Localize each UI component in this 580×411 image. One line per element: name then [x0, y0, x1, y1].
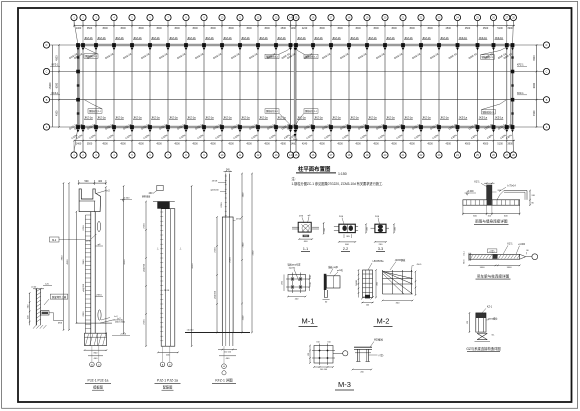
svg-text:4500: 4500 — [446, 27, 452, 30]
embed left dims — [29, 293, 31, 325]
M-1 side dim — [323, 299, 330, 301]
top dimension line — [74, 25, 515, 27]
column detail PJZ-1 formwork : top dimension — [79, 182, 106, 184]
expansion joint bottom marker — [294, 129, 296, 139]
R1 step flashing above right part — [504, 190, 527, 192]
svg-text:4500: 4500 — [483, 27, 489, 30]
svg-text:4500: 4500 — [465, 27, 471, 30]
svg-text:4500: 4500 — [391, 142, 397, 145]
svg-text:4500: 4500 — [210, 27, 216, 30]
svg-text:4500: 4500 — [228, 27, 234, 30]
M-1 anchor plan — [288, 275, 306, 292]
svg-text:JKZ-1a: JKZ-1a — [440, 116, 449, 120]
svg-text:4500: 4500 — [56, 110, 59, 116]
svg-text:JKZ-1b: JKZ-1b — [404, 36, 413, 40]
svg-text:4500: 4500 — [246, 142, 252, 145]
svg-text:吊车梁与柱连接详图: 吊车梁与柱连接详图 — [477, 273, 510, 278]
svg-text:JKZ-1b: JKZ-1b — [314, 36, 323, 40]
R1 beam band — [463, 200, 520, 205]
svg-text:4500: 4500 — [409, 142, 415, 145]
svg-text:JKZ-1a: JKZ-1a — [205, 116, 214, 120]
svg-text:JKZ-1a: JKZ-1a — [368, 116, 377, 120]
svg-text:5100: 5100 — [497, 27, 503, 30]
svg-text:JKZ-1a: JKZ-1a — [404, 116, 413, 120]
grid bubbles bottom row — [71, 152, 517, 158]
svg-text:JKZ-1b: JKZ-1b — [97, 36, 106, 40]
svg-text:JKZ-1b: JKZ-1b — [241, 36, 250, 40]
svg-text:3500: 3500 — [87, 142, 93, 145]
KFZ-1 axis bubble — [222, 364, 227, 369]
svg-text:4500: 4500 — [427, 142, 433, 145]
section 1-1 — [298, 222, 311, 232]
svg-text:3940: 3940 — [83, 259, 85, 265]
svg-text:4500: 4500 — [319, 142, 325, 145]
svg-text:JKZ-1b: JKZ-1b — [223, 36, 232, 40]
bolt slot lower — [98, 310, 101, 320]
svg-text:(Q235): (Q235) — [289, 267, 296, 269]
M-2 strip left dim — [358, 270, 360, 298]
svg-text:2-2: 2-2 — [343, 247, 348, 251]
boxed labels reinforced concrete column — [84, 54, 98, 58]
leader b-2 at base — [100, 320, 114, 323]
svg-text:JKZ-1a: JKZ-1a — [479, 116, 488, 120]
svg-text:4500: 4500 — [192, 142, 198, 145]
svg-text:M-2: M-2 — [377, 317, 390, 326]
svg-text:±0.000: ±0.000 — [187, 330, 194, 332]
KFZ-1 ground line — [185, 332, 250, 334]
svg-text:4500: 4500 — [391, 27, 397, 30]
R2 right taper — [520, 254, 526, 256]
rebar stirrup ticks — [160, 212, 163, 341]
right vertical dimension line — [536, 45, 538, 127]
svg-text:4500: 4500 — [337, 142, 343, 145]
svg-text:JKZ-1b: JKZ-1b — [368, 36, 377, 40]
svg-text:4500: 4500 — [228, 142, 234, 145]
svg-text:1460: 1460 — [76, 142, 82, 145]
svg-text:C: C — [46, 71, 48, 74]
svg-text:JKZ-1b: JKZ-1b — [259, 36, 268, 40]
svg-text:KFZ-1: KFZ-1 — [52, 64, 59, 67]
left wall — [77, 45, 79, 127]
svg-text:JKZ-1b: JKZ-1b — [277, 36, 286, 40]
svg-text:JKZ-1a: JKZ-1a — [133, 116, 142, 120]
embed ground hatch — [33, 325, 36, 329]
svg-text:2Φ18: 2Φ18 — [229, 257, 232, 263]
svg-text:5@80: 5@80 — [356, 279, 358, 285]
svg-text:JKZ-1a: JKZ-1a — [187, 116, 196, 120]
svg-text:110 110: 110 110 — [224, 352, 232, 354]
svg-text:100: 100 — [310, 282, 312, 285]
svg-text:1400: 1400 — [480, 267, 486, 269]
svg-text:2Φ18: 2Φ18 — [82, 225, 85, 231]
svg-text:JKZ-1b: JKZ-1b — [133, 36, 142, 40]
M-2 strip bottom dim — [362, 302, 374, 304]
R1 right dim column — [529, 191, 531, 206]
svg-text:5100: 5100 — [497, 142, 503, 145]
svg-text:2Φ18: 2Φ18 — [212, 180, 218, 183]
svg-text:JKZ-1b: JKZ-1b — [84, 36, 93, 40]
svg-text:4500: 4500 — [373, 142, 379, 145]
svg-text:JKZ-1b: JKZ-1b — [187, 36, 196, 40]
detail PJZ-1 rebar : dark cap — [157, 202, 169, 209]
svg-text:JKZ-1b: JKZ-1b — [205, 36, 214, 40]
M-1 plan corner crosses — [291, 286, 294, 289]
detail KFZ-1 : main shaft — [222, 217, 233, 333]
section 2-2 — [339, 224, 355, 232]
svg-text:JKZ-1a: JKZ-1a — [495, 116, 504, 120]
embed plate — [41, 311, 49, 315]
svg-text:C: C — [546, 71, 548, 74]
svg-text:⊥: ⊥ — [157, 247, 160, 251]
svg-text:3500: 3500 — [87, 27, 93, 30]
svg-text:1400: 1400 — [507, 267, 513, 269]
svg-text:JKZ-1a: JKZ-1a — [115, 116, 124, 120]
svg-text:100 100: 100 100 — [320, 369, 328, 371]
svg-text:4500: 4500 — [156, 27, 162, 30]
svg-text:4500: 4500 — [174, 27, 180, 30]
svg-text:柱平面布置图: 柱平面布置图 — [298, 165, 331, 173]
svg-text:1460: 1460 — [76, 27, 82, 30]
row C grid line — [50, 71, 543, 73]
far right dim line of PJZ-1 — [123, 186, 125, 333]
svg-text:4500: 4500 — [355, 142, 361, 145]
row A grid line — [50, 126, 543, 128]
left wall intermediate columns — [76, 70, 80, 74]
far-left dim lines of PJZ-1 — [63, 183, 65, 330]
svg-text:4500: 4500 — [67, 259, 69, 265]
svg-text:JKZ-1a: JKZ-1a — [386, 116, 395, 120]
leader b-2 — [96, 191, 106, 194]
svg-text:KFZ-1: KFZ-1 — [517, 64, 524, 67]
svg-text:JKZ-1a: JKZ-1a — [422, 116, 431, 120]
svg-text:M-3: M-3 — [338, 380, 351, 389]
svg-text:(500×400): (500×400) — [115, 321, 125, 324]
M-1 plan dims — [288, 296, 306, 298]
embed detail wall with hatch — [35, 289, 37, 326]
svg-text:4500: 4500 — [174, 142, 180, 145]
svg-text:1-1: 1-1 — [303, 247, 308, 251]
svg-text:JKZ-1b: JKZ-1b — [350, 36, 359, 40]
R2 mid joint block — [493, 255, 498, 259]
row bubbles left (A-D) — [43, 42, 49, 48]
shaft stirrup ticks — [85, 215, 90, 328]
svg-text:4240: 4240 — [302, 27, 308, 30]
svg-text:KZ-1: KZ-1 — [487, 306, 493, 309]
svg-text:注:: 注: — [292, 176, 296, 181]
KFZ-1 right dim lines — [241, 174, 243, 333]
left dim line of PJZ-1 — [84, 215, 86, 333]
svg-text:4500: 4500 — [533, 55, 536, 61]
svg-text:±0.00: ±0.00 — [31, 287, 37, 289]
svg-text:模板图: 模板图 — [93, 385, 103, 390]
svg-text:2860: 2860 — [83, 311, 85, 317]
svg-text:4500: 4500 — [124, 259, 126, 265]
section 3-3 — [375, 224, 386, 232]
R2 bottom dim — [469, 264, 520, 266]
svg-text:JKZ-1a: JKZ-1a — [241, 116, 250, 120]
svg-text:JKZ-1a: JKZ-1a — [314, 116, 323, 120]
svg-text:JKZ-1b: JKZ-1b — [422, 36, 431, 40]
M-3 leader circle — [333, 352, 343, 354]
M-2 bottom dim — [383, 300, 413, 302]
svg-text:4500: 4500 — [102, 142, 108, 145]
svg-text:KFZ-1: KFZ-1 — [517, 92, 524, 95]
svg-text:JKZ-1b: JKZ-1b — [479, 36, 488, 40]
bottom dimension line — [74, 140, 515, 142]
svg-text:1:150: 1:150 — [338, 172, 347, 176]
svg-text:500: 500 — [85, 180, 90, 183]
footing hatch — [86, 334, 89, 345]
M-2 ladder strip — [363, 270, 373, 298]
PJZ-1 base axis bubbles — [90, 362, 95, 367]
M-3 side bottom dim — [353, 369, 372, 371]
svg-text:+4.000: +4.000 — [518, 244, 526, 246]
column detail PJZ-1 : shaft — [90, 212, 92, 334]
top wall — [78, 44, 513, 47]
svg-text:KZ-1: KZ-1 — [507, 243, 513, 246]
svg-text:2Φ18: 2Φ18 — [236, 218, 242, 221]
svg-text:4500: 4500 — [427, 27, 433, 30]
KFZ-1 left dim of main shaft — [216, 217, 218, 333]
expansion joint top marker — [294, 48, 297, 51]
R2 left end plates — [468, 253, 470, 261]
svg-text:4500: 4500 — [210, 142, 216, 145]
svg-text:JKZ-1a: JKZ-1a — [151, 116, 160, 120]
PJZ-1 footing — [85, 333, 107, 345]
svg-text:JKZ-1b: JKZ-1b — [440, 36, 449, 40]
M-1 side channel — [324, 274, 327, 290]
svg-text:φ6@200: φ6@200 — [210, 190, 219, 192]
svg-text:M-2: M-2 — [52, 239, 57, 242]
column detail PJZ-1 : U-shaped top corbel — [79, 189, 100, 212]
row D grid line — [50, 44, 543, 46]
footing bottom dims — [85, 349, 107, 351]
svg-text:D: D — [546, 44, 548, 47]
bottom slanted tags below wall — [71, 133, 513, 140]
svg-text:b 75×14: b 75×14 — [507, 184, 516, 187]
svg-text:4500: 4500 — [120, 142, 126, 145]
svg-text:4500: 4500 — [264, 142, 270, 145]
2-2 bottom dim — [339, 241, 355, 243]
svg-text:JKZ-1b: JKZ-1b — [151, 36, 160, 40]
svg-text:JKZ-1b: JKZ-1b — [386, 36, 395, 40]
svg-text:JKZ-1b: JKZ-1b — [495, 36, 504, 40]
left dim line of rebar detail — [145, 202, 147, 347]
svg-text:400: 400 — [98, 180, 103, 183]
right wall — [512, 45, 514, 127]
detail PJZ-1 rebar : top flag — [157, 185, 163, 190]
1-1 inner dim — [303, 235, 310, 237]
svg-text:4500: 4500 — [533, 110, 536, 116]
svg-text:Φ6.5: Φ6.5 — [417, 263, 423, 266]
embed top dims — [33, 288, 44, 290]
svg-text:2Φ18: 2Φ18 — [164, 289, 170, 292]
svg-text:100: 100 — [310, 275, 312, 278]
R2 beam — [469, 254, 520, 259]
embed leader to XX — [49, 312, 54, 314]
svg-text:KFZ-1: KFZ-1 — [52, 92, 59, 95]
M-1 side bottom leg — [323, 290, 325, 298]
svg-text:15000: 15000 — [49, 82, 52, 89]
svg-text:⊥: ⊥ — [179, 247, 182, 251]
R3 member — [476, 313, 486, 318]
R1 center vertical member — [487, 185, 492, 206]
svg-text:4500: 4500 — [120, 27, 126, 30]
svg-text:φ8@150: φ8@150 — [83, 283, 85, 292]
svg-text:φ8@200: φ8@200 — [144, 263, 146, 272]
svg-text:4500: 4500 — [483, 142, 489, 145]
svg-text:4240: 4240 — [302, 142, 308, 145]
svg-text:KZ-1: KZ-1 — [474, 181, 480, 184]
svg-text:雨篷与墙身连接详图: 雨篷与墙身连接详图 — [475, 219, 508, 224]
3-3 right dim — [393, 224, 395, 232]
svg-text:JKZ-1a: JKZ-1a — [223, 116, 232, 120]
M-2 reference box — [50, 237, 60, 242]
vertical grid lines through building — [74, 21, 513, 152]
svg-text:4500: 4500 — [246, 27, 252, 30]
top bay labels JKZ-1b — [84, 36, 504, 40]
svg-text:PJZ-1 PJZ-1a: PJZ-1 PJZ-1a — [157, 379, 178, 383]
svg-text:4500: 4500 — [281, 27, 287, 30]
expansion joint wall at axis 14 — [294, 45, 296, 127]
right dim line of rebar detail — [191, 186, 193, 346]
bottom bay labels JKZ-1 — [84, 116, 504, 120]
svg-text:4500: 4500 — [138, 142, 144, 145]
bolt slot upper — [97, 221, 100, 231]
svg-text:2Φ16: 2Φ16 — [220, 202, 223, 208]
row bubbles right (A-D) — [543, 42, 549, 48]
svg-text:4500: 4500 — [192, 27, 198, 30]
svg-text:D: D — [46, 44, 48, 47]
svg-text:钢梁埋件上移: 钢梁埋件上移 — [52, 295, 67, 299]
svg-text:2Φ18: 2Φ18 — [143, 223, 146, 229]
R3 bowtie base — [477, 333, 487, 339]
M-2 strip base block — [365, 295, 370, 299]
svg-text:1.钢柱分图ZC-1 参见图集07G220, ZCM3-10: 1.钢柱分图ZC-1 参见图集07G220, ZCM3-10d 有关要求进行施工… — [292, 181, 384, 186]
M-3 plan — [314, 346, 333, 364]
M-2 strip right dim — [375, 270, 377, 298]
leaders from boxed labels to joint columns — [279, 51, 287, 55]
svg-text:4500: 4500 — [319, 27, 325, 30]
svg-text:1460: 1460 — [291, 142, 297, 145]
detail KFZ-1 : upper thin shaft — [225, 174, 227, 218]
svg-text:JKZ-1a: JKZ-1a — [84, 116, 93, 120]
svg-text:JKZ-1b: JKZ-1b — [459, 36, 468, 40]
R2 end circle — [532, 254, 538, 260]
bottom wall — [78, 126, 513, 129]
2-2 right dim — [365, 224, 367, 232]
svg-text:PJZ-1 PJZ-1a: PJZ-1 PJZ-1a — [88, 379, 109, 383]
corbel edge projected line — [75, 212, 77, 324]
svg-text:JKZ-1a: JKZ-1a — [459, 116, 468, 120]
1-1 bottom dim — [299, 238, 312, 240]
right wall intermediate columns — [511, 70, 515, 74]
rebar detail base dims — [158, 351, 178, 353]
svg-text:L50X5X5a: L50X5X5a — [373, 261, 384, 263]
ground line at PJZ-1 base — [76, 322, 112, 324]
svg-text:GZ与系梁连接构造详图: GZ与系梁连接构造详图 — [466, 346, 501, 351]
svg-text:JKZ-1a: JKZ-1a — [259, 116, 268, 120]
1-1 right dim — [323, 223, 325, 234]
svg-text:JKZ-1a: JKZ-1a — [169, 116, 178, 120]
svg-text:4500: 4500 — [264, 27, 270, 30]
svg-text:2Φ16: 2Φ16 — [143, 319, 146, 325]
svg-text:KFZ-1 详图: KFZ-1 详图 — [215, 378, 233, 383]
svg-text:JKZ-1b: JKZ-1b — [115, 36, 124, 40]
svg-text:4500: 4500 — [355, 27, 361, 30]
R1 bottom dim — [463, 213, 520, 215]
KFZ-1 bottom dims — [218, 349, 237, 351]
M-2 right dim — [415, 272, 417, 296]
svg-text:JKZ-1b: JKZ-1b — [332, 36, 341, 40]
svg-text:JKZ-1b: JKZ-1b — [297, 36, 306, 40]
svg-text:3900: 3900 — [507, 27, 513, 30]
top wall columns — [76, 43, 514, 50]
svg-text:4500: 4500 — [156, 142, 162, 145]
detail PJZ-1 rebar : column body — [161, 209, 175, 347]
mid annotation phi8 — [96, 245, 103, 247]
left vertical dimension line — [58, 45, 60, 127]
bottom slanted column tags above wall — [68, 122, 513, 131]
M-2 brace frame — [382, 270, 384, 294]
left overall dimension — [52, 45, 54, 127]
svg-text:6000: 6000 — [533, 82, 536, 88]
svg-text:4500: 4500 — [446, 142, 452, 145]
svg-text:4500: 4500 — [373, 27, 379, 30]
top slanted column tags below wall — [68, 51, 513, 60]
svg-text:4500: 4500 — [192, 263, 194, 269]
svg-text:1460: 1460 — [291, 27, 297, 30]
svg-text:6000: 6000 — [56, 82, 59, 88]
svg-text:φ8@150: φ8@150 — [215, 290, 217, 299]
svg-text:2Φ18: 2Φ18 — [214, 247, 217, 253]
svg-text:4500: 4500 — [102, 27, 108, 30]
svg-text:4500: 4500 — [281, 142, 287, 145]
svg-text:4500: 4500 — [337, 27, 343, 30]
3-3 bottom dim — [375, 241, 386, 243]
right dim line of PJZ-1 — [105, 187, 107, 333]
svg-text:JKZ-1b: JKZ-1b — [169, 36, 178, 40]
svg-text:3900: 3900 — [507, 142, 513, 145]
boxed label 钢梁埋件上移 — [50, 294, 68, 299]
svg-text:4500: 4500 — [409, 27, 415, 30]
svg-text:JKZ-1a: JKZ-1a — [97, 116, 106, 120]
svg-text:4500: 4500 — [56, 55, 59, 61]
svg-text:JKZ-1a: JKZ-1a — [350, 116, 359, 120]
KFZ-1 below-ground shaft — [221, 333, 223, 347]
grid bubbles top row — [71, 14, 517, 20]
svg-text:4500: 4500 — [465, 142, 471, 145]
svg-text:配筋图: 配筋图 — [163, 385, 173, 390]
svg-text:M-1: M-1 — [302, 317, 315, 326]
svg-text:-2.000: -2.000 — [120, 333, 127, 335]
svg-text:3-3: 3-3 — [378, 247, 383, 251]
svg-text:2Φ16: 2Φ16 — [96, 293, 102, 296]
svg-text:7850: 7850 — [61, 255, 63, 261]
bottom wall columns — [76, 125, 514, 132]
svg-text:JKZ-1a: JKZ-1a — [332, 116, 341, 120]
row B grid line — [50, 99, 543, 101]
R3 left dim — [468, 313, 470, 332]
M-3 side view — [354, 346, 372, 348]
R1 member top dim — [484, 182, 495, 184]
M-2 brace diagonals — [383, 272, 413, 279]
rebar base axis bubbles — [160, 362, 165, 367]
M-3 plan dims — [309, 346, 311, 364]
svg-text:4500: 4500 — [138, 27, 144, 30]
